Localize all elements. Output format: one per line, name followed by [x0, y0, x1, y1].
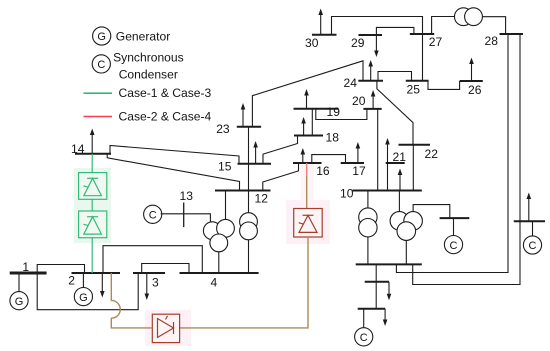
svg-text:Case-2 & Case-4: Case-2 & Case-4 — [119, 110, 212, 124]
bus 16 — [293, 162, 322, 164]
bus 17 — [341, 162, 364, 164]
load arrow bus 23 — [241, 103, 246, 127]
synchronous condenser bus 13 — [144, 205, 162, 223]
bus 18 — [294, 135, 323, 137]
svg-text:23: 23 — [216, 122, 230, 136]
wire transformer to bus 12 — [225, 191, 227, 220]
bus 27 — [410, 33, 434, 35]
wire bus 14 to converter V1 — [91, 154, 93, 173]
bus 9 stub — [440, 217, 470, 219]
load arrow bus 15 — [253, 141, 258, 164]
svg-text:19: 19 — [327, 105, 341, 119]
wire 12-16 — [263, 163, 299, 191]
wire converter V1 to V2 — [91, 199, 93, 211]
synchronous condenser bus 8 — [523, 236, 541, 254]
wire bus 5 to condenser — [363, 309, 365, 328]
svg-text:14: 14 — [71, 142, 85, 156]
bus 8 — [514, 220, 545, 222]
load arrow bus 18 — [301, 117, 306, 136]
wire bus 16 tap — [306, 163, 308, 176]
bus 29 — [359, 34, 383, 36]
load arrow bus 2 — [100, 273, 105, 298]
svg-text:20: 20 — [352, 94, 366, 108]
three-winding transformer 6-10-9 — [390, 212, 422, 241]
bus 1 — [10, 272, 47, 275]
wire 19-20 — [316, 109, 367, 120]
svg-text:30: 30 — [305, 36, 319, 50]
load arrow bus 16 — [301, 148, 306, 163]
load arrow bus 30 — [318, 9, 323, 36]
wire transformer 4-12 to bus 4 — [248, 240, 250, 273]
wire bus 2 to generator — [82, 273, 84, 288]
wire condenser to transformer — [161, 214, 211, 222]
converter V3 — [294, 209, 323, 238]
wire 1-2 — [37, 265, 84, 274]
wire 14-15 — [110, 146, 239, 164]
transformer 27-28 — [455, 8, 483, 26]
wire converter V3 down — [180, 237, 308, 328]
wire 29-27 — [376, 27, 414, 35]
wire 24-22 — [377, 81, 413, 145]
svg-text:16: 16 — [316, 164, 330, 178]
bus 5 — [358, 308, 385, 310]
legend line Case-2 & Case-4 — [84, 116, 113, 118]
wire transformer to 28 — [482, 17, 505, 34]
wire 2-4 — [103, 246, 202, 273]
wire 23-24 — [252, 61, 363, 127]
wire 27 to transformer — [432, 17, 455, 35]
wire bus 1 to generator — [18, 273, 20, 292]
synchronous condenser bus 5 — [355, 328, 373, 346]
svg-text:C: C — [97, 59, 105, 71]
wire 6-7 — [375, 264, 377, 281]
bus 7 — [365, 281, 389, 283]
generator bus 1 — [10, 292, 28, 310]
three-winding transformer 4-12-13 — [203, 219, 234, 251]
bus 15 — [238, 163, 272, 165]
wire 10-21 with arrow — [385, 138, 390, 191]
svg-text:G: G — [15, 296, 24, 308]
svg-text:21: 21 — [393, 150, 407, 164]
svg-text:27: 27 — [429, 35, 443, 49]
wire tap to converter V3 — [306, 176, 308, 209]
wire bus 8 to condenser — [532, 221, 534, 236]
svg-text:C: C — [529, 240, 537, 252]
svg-text:Case-1 & Case-3: Case-1 & Case-3 — [119, 86, 212, 100]
legend synchronous condenser symbol — [92, 55, 110, 73]
wire 24-25 — [378, 72, 412, 81]
wire 3-4 — [142, 264, 189, 274]
svg-text:18: 18 — [326, 131, 340, 145]
glow of converter V4 — [145, 310, 191, 346]
load arrow bus 17 — [356, 142, 361, 163]
glow of converter V1 — [74, 168, 111, 243]
bus 2 — [72, 272, 121, 274]
wire 23-15-12 and 12-transformer — [248, 127, 250, 213]
bus 25 — [406, 80, 429, 82]
wire transformer 6-10 to bus 6 — [367, 237, 369, 265]
wire 15-18 — [263, 136, 298, 164]
wire tertiary to bus 9 stub — [413, 205, 450, 219]
load arrow bus 19 — [304, 89, 309, 109]
load arrow bus 26 — [469, 58, 474, 82]
svg-text:C: C — [450, 240, 458, 252]
wire 1-3 — [37, 273, 138, 310]
wire three-winding transformer to bus 6 — [405, 240, 407, 264]
svg-text:29: 29 — [351, 36, 365, 50]
wire 6-28 — [396, 34, 508, 273]
bus 10 — [353, 190, 422, 192]
bus 24 — [358, 80, 383, 82]
legend generator symbol — [93, 27, 111, 45]
transformer 6-10 — [359, 208, 377, 237]
bus 30 — [312, 34, 337, 36]
converter V1 — [79, 173, 107, 200]
wire 22-10 — [412, 145, 414, 191]
bus 23 — [237, 126, 261, 128]
bus 4 — [180, 272, 259, 274]
bus 14 — [75, 153, 111, 155]
svg-text:Generator: Generator — [116, 29, 170, 43]
wire 18-19 — [311, 109, 313, 136]
bus 22 — [399, 144, 431, 146]
wire 12-14 — [107, 154, 239, 191]
svg-text:C: C — [149, 210, 157, 222]
svg-text:15: 15 — [218, 160, 232, 174]
bus 12 — [215, 190, 271, 192]
svg-text:2: 2 — [68, 274, 75, 288]
bus 13 — [183, 203, 185, 228]
svg-text:Condenser: Condenser — [119, 67, 178, 81]
load arrow bus 20 — [371, 90, 376, 109]
bus 19 — [294, 108, 339, 110]
load arrow bus 5 — [383, 309, 388, 326]
load arrow bus 7 — [387, 282, 392, 301]
svg-text:G: G — [79, 292, 88, 304]
wire 16-17 — [312, 155, 346, 163]
bus 3 — [133, 272, 165, 274]
wire 20-10 — [377, 109, 379, 191]
load arrow bus 8 — [527, 193, 532, 222]
svg-text:24: 24 — [344, 76, 358, 90]
wire 8-28 and 6-8 — [413, 34, 520, 285]
bus 26 — [460, 80, 483, 82]
legend label Synchronous Condenser — [113, 51, 184, 82]
svg-text:28: 28 — [485, 34, 499, 48]
svg-text:13: 13 — [180, 189, 194, 203]
legend line Case-1 & Case-3 — [84, 92, 113, 94]
load arrow bus 24 — [368, 60, 373, 81]
svg-text:25: 25 — [407, 83, 421, 97]
transformer 4-12 — [240, 213, 258, 240]
synchronous condenser bus 11 — [444, 236, 462, 254]
bus 6 — [356, 263, 422, 265]
wire 25-26 — [428, 81, 460, 90]
svg-text:G: G — [97, 31, 106, 43]
svg-text:3: 3 — [152, 276, 159, 290]
svg-text:Synchronous: Synchronous — [113, 51, 184, 65]
generator bus 2 — [74, 288, 92, 306]
load arrow bus 14 — [90, 129, 95, 154]
wire stub to condenser — [453, 218, 455, 235]
svg-text:12: 12 — [255, 192, 269, 206]
wire converter V4 to bus 2 with crossover hop — [111, 273, 152, 328]
wire 30-27 and 27-25 — [332, 17, 423, 82]
wire converter V2 to bus 2 — [91, 238, 93, 273]
svg-text:22: 22 — [425, 147, 439, 161]
svg-text:4: 4 — [211, 276, 218, 290]
load arrow bus 10 — [398, 169, 403, 191]
bus 28 — [500, 33, 524, 35]
svg-text:17: 17 — [352, 164, 366, 178]
glow of converter V3 — [286, 165, 330, 244]
wire transformer to bus 4 — [218, 252, 220, 273]
wire bus 10 to transformer 6-10 — [367, 191, 369, 208]
converter V4 — [152, 314, 179, 342]
svg-text:1: 1 — [22, 260, 29, 274]
wire 7-5 — [375, 282, 377, 309]
wire bus 10 to three-winding transformer — [398, 191, 400, 212]
bus 21 — [386, 162, 405, 164]
svg-text:10: 10 — [340, 187, 354, 201]
bus 20 — [363, 108, 381, 110]
svg-text:26: 26 — [468, 83, 482, 97]
load arrow bus 3 — [145, 273, 150, 300]
svg-text:C: C — [360, 332, 368, 344]
load arrow bus 29 — [374, 35, 379, 57]
converter V2 — [79, 211, 107, 238]
